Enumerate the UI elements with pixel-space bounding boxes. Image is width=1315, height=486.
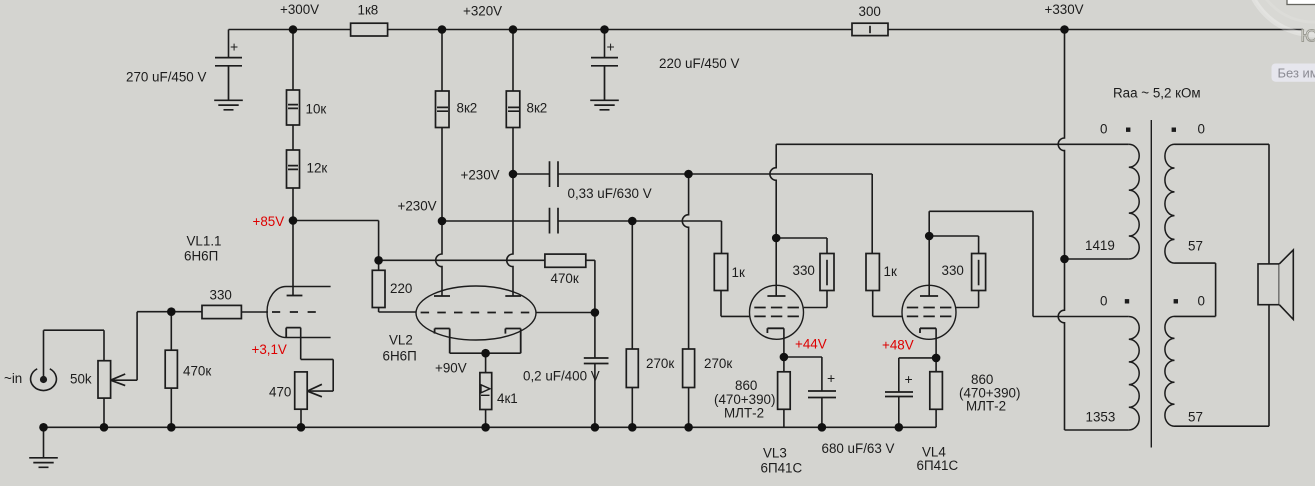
- wire VL3 cathode to node: [783, 328, 785, 357]
- svg-text:1к: 1к: [732, 265, 745, 280]
- pentode VL4: [902, 285, 956, 339]
- svg-text:0: 0: [1198, 294, 1205, 309]
- wire VL4 screen 330 bottom link: [956, 291, 979, 308]
- input jack ~in: [31, 369, 57, 391]
- wire VL3 screen 330 bottom link: [804, 291, 827, 308]
- capacitor 0,2uF/400V: [584, 358, 609, 364]
- svg-text:8к2: 8к2: [527, 101, 548, 116]
- svg-text:МЛТ-2: МЛТ-2: [966, 399, 1006, 414]
- resistor 10k: [287, 90, 300, 125]
- svg-text:+44V: +44V: [795, 337, 827, 352]
- wire speaker vertical: [1268, 144, 1270, 426]
- wire node to 470k left: [379, 259, 545, 261]
- svg-text:270 uF/450 V: 270 uF/450 V: [126, 70, 206, 85]
- svg-text:8к2: 8к2: [457, 101, 478, 116]
- wire +330V column with hops: [1058, 30, 1064, 431]
- wire VL3 screen 330 top link: [776, 238, 827, 254]
- dual triode VL2: [416, 286, 536, 353]
- resistor 300: [852, 23, 888, 35]
- wire 270uF top lead: [228, 30, 230, 58]
- wire 330 to VL1 grid: [241, 311, 268, 313]
- svg-text:+85V: +85V: [253, 214, 285, 229]
- potentiometer 470 VL1 cathode: [295, 372, 322, 409]
- wire 50k wiper to grid node: [111, 312, 202, 381]
- svg-text:330: 330: [942, 263, 964, 278]
- svg-text:+230V: +230V: [461, 168, 500, 183]
- ui overlay top right ghost arc: [1245, 0, 1315, 35]
- svg-text:330: 330: [793, 263, 815, 278]
- resistor 270k no1: [626, 349, 638, 388]
- resistor 1k no1: [714, 254, 727, 291]
- wire grid node to 470k grid leak: [170, 312, 172, 428]
- pentode VL3: [750, 285, 804, 339]
- svg-text:1419: 1419: [1085, 238, 1115, 253]
- wire +330V to primary lower bottom: [1065, 429, 1129, 431]
- wire C2 right to VL3 grid resistor: [558, 221, 722, 254]
- svg-text:1к8: 1к8: [358, 3, 379, 18]
- wire 12k to +85V node: [292, 188, 294, 221]
- wire VL4 node to 680uF cap: [899, 358, 936, 427]
- polarity mark primary lower: [1125, 299, 1129, 303]
- capacitor 680uF no2: [885, 392, 913, 397]
- svg-text:МЛТ-2: МЛТ-2: [724, 406, 764, 421]
- svg-text:57: 57: [1188, 239, 1203, 254]
- svg-text:860: 860: [735, 378, 757, 393]
- svg-text:470к: 470к: [183, 364, 211, 379]
- svg-text:+: +: [607, 39, 615, 55]
- wire 8k2 no1 to +230V node with hop over y260: [436, 128, 442, 297]
- transformer output: [1129, 120, 1175, 448]
- capacitor 0,33uF no1: [550, 161, 559, 187]
- svg-text:0: 0: [1100, 122, 1107, 137]
- svg-text:57: 57: [1188, 410, 1203, 425]
- svg-text:+3,1V: +3,1V: [252, 342, 287, 357]
- svg-text:0,33 uF/630 V: 0,33 uF/630 V: [568, 186, 652, 201]
- wire ground bus: [44, 426, 937, 428]
- capacitor 270uF/450V: [215, 58, 242, 101]
- wire secondary section link: [1175, 263, 1216, 316]
- svg-text:+: +: [827, 370, 835, 386]
- wire secondary bottom to speaker: [1175, 425, 1270, 427]
- svg-text:470: 470: [269, 385, 291, 400]
- ui window fragment: [1287, 0, 1315, 5]
- resistor 4k1 VL2 cathode: [480, 373, 492, 410]
- resistor 330 VL1 grid stopper: [202, 305, 241, 318]
- svg-text:0,2 uF/400 V: 0,2 uF/400 V: [523, 369, 600, 384]
- wire +230V node2 to coupling cap C1: [513, 173, 550, 175]
- wire C1 right to VL4 grid resistor: [558, 174, 872, 254]
- capacitor 680uF no1: [808, 391, 836, 398]
- wire rail to 8k2 no2: [512, 30, 514, 92]
- triode VL1.1: [267, 287, 331, 338]
- svg-text:VL1.1: VL1.1: [187, 234, 222, 249]
- wire secondary top to speaker: [1175, 143, 1270, 145]
- svg-text:+48V: +48V: [882, 338, 914, 353]
- svg-text:Без име: Без име: [1278, 66, 1315, 81]
- svg-text:330: 330: [210, 288, 232, 303]
- resistor 8k2 no1: [436, 91, 450, 128]
- wire 470 bottom to ground: [300, 409, 302, 427]
- wire VL3 node to 680uF cap: [784, 357, 822, 427]
- svg-text:+230V: +230V: [398, 199, 437, 214]
- ground under 270uF: [214, 100, 243, 110]
- svg-text:0: 0: [1198, 122, 1205, 137]
- resistor 220 VL2 grid stopper: [372, 270, 385, 307]
- wire 220 bottom to VL2 grid1: [379, 308, 417, 313]
- winding secondary lower 57: [1165, 316, 1175, 426]
- ui tooltip bez ime: [1272, 64, 1315, 82]
- svg-text:6Н6П: 6Н6П: [184, 249, 218, 264]
- potentiometer 50k: [98, 361, 125, 398]
- resistor 470k VL2: [545, 254, 586, 267]
- speaker: [1258, 250, 1293, 320]
- wire VL3 node to 860 and ground: [783, 357, 785, 427]
- svg-text:~in: ~in: [4, 371, 22, 386]
- svg-text:Raa ~ 5,2 кОм: Raa ~ 5,2 кОм: [1113, 86, 1201, 101]
- wire VL1 cathode to 470 wiper: [301, 328, 334, 392]
- wire VL2 cathode bus to 4k1: [485, 353, 487, 427]
- svg-text:+300V: +300V: [280, 2, 319, 17]
- wire VL3 anode node down to plate: [775, 238, 777, 296]
- wire VL4 cathode to node: [935, 328, 937, 358]
- wire VL2 grid2 to node: [537, 312, 595, 314]
- polarity mark secondary lower: [1174, 299, 1178, 303]
- resistor 470k grid leak VL1: [165, 350, 177, 388]
- wire 220 top lead: [378, 260, 380, 270]
- wire riser 270k no2 with hop over y221: [682, 174, 688, 349]
- svg-text:6П41С: 6П41С: [761, 461, 803, 476]
- ground under 220uF: [590, 100, 619, 110]
- resistor 330 VL3 screen: [820, 254, 834, 291]
- polarity mark secondary upper: [1172, 128, 1176, 132]
- resistor 330 VL4 screen: [972, 254, 986, 291]
- svg-text:0: 0: [1100, 294, 1107, 309]
- wire 1k no1 to VL3 grid: [721, 291, 750, 317]
- capacitor 220uF/450V: [591, 58, 618, 101]
- wire VL3 anode to primary top: [776, 143, 1129, 145]
- wire +230V node1 to coupling cap C2: [442, 220, 550, 222]
- svg-text:50k: 50k: [70, 372, 92, 387]
- ground at input: [29, 458, 58, 468]
- resistor 270k no2: [683, 349, 695, 388]
- svg-text:4к1: 4к1: [497, 391, 518, 406]
- svg-text:+: +: [230, 39, 238, 55]
- wire VL1 anode lead: [292, 221, 294, 296]
- svg-text:+90V: +90V: [435, 361, 467, 376]
- wire 1k no2 to VL4 grid: [873, 291, 902, 317]
- wire riser 270k no1: [631, 221, 633, 349]
- svg-text:6Н6П: 6Н6П: [383, 349, 417, 364]
- wire rail to 8k2 no1: [441, 30, 443, 92]
- wire 270k bottoms to ground: [632, 388, 688, 428]
- svg-text:+320V: +320V: [463, 4, 502, 19]
- wire +330V to primary mid: [1065, 258, 1129, 260]
- svg-text:270к: 270к: [704, 356, 732, 371]
- svg-text:680 uF/63 V: 680 uF/63 V: [822, 441, 895, 456]
- wire node to 0,2uF to ground: [594, 313, 596, 428]
- wire input jack to ground symbol: [43, 427, 45, 458]
- svg-text:1к: 1к: [884, 264, 897, 279]
- resistor 1k8: [351, 23, 388, 36]
- resistor 12k: [287, 150, 300, 188]
- svg-text:6П41С: 6П41С: [917, 458, 959, 473]
- wire +85V node to VL2 grid network: [293, 221, 379, 261]
- wire +300V rail to 10k: [292, 30, 294, 91]
- svg-text:1353: 1353: [1086, 410, 1116, 425]
- svg-text:+: +: [905, 371, 913, 387]
- svg-text:220: 220: [390, 281, 412, 296]
- svg-text:Ю: Ю: [1301, 26, 1315, 46]
- svg-text:VL3: VL3: [763, 446, 787, 461]
- svg-text:10к: 10к: [306, 102, 327, 117]
- capacitor 0,33uF no2: [550, 208, 559, 234]
- svg-text:220 uF/450 V: 220 uF/450 V: [659, 56, 739, 71]
- wire 10k to 12k: [292, 125, 294, 150]
- wire input jack to 50k: [44, 330, 105, 379]
- resistor 860 VL3 cathode: [778, 372, 791, 410]
- resistor 1k no2: [866, 254, 879, 291]
- wire 50k bottom to ground: [103, 398, 105, 427]
- wire VL4 anode to primary bottom: [929, 211, 1129, 316]
- wire 220uF top lead: [604, 30, 606, 58]
- wire VL4 node to 860 and ground: [935, 358, 937, 427]
- polarity mark primary upper: [1126, 128, 1130, 132]
- wire +300V/+320V/+330V top supply rail: [229, 29, 1304, 31]
- wire VL4 screen 330 top link: [929, 236, 978, 254]
- transformer core: [1150, 120, 1152, 448]
- winding secondary upper 57: [1165, 144, 1175, 263]
- wire 470k right to grid2 node: [586, 260, 595, 312]
- resistor 8k2 no2: [506, 91, 520, 128]
- svg-text:470к: 470к: [551, 271, 579, 286]
- svg-text:300: 300: [859, 4, 881, 19]
- svg-text:270к: 270к: [646, 356, 674, 371]
- winding primary lower 1353: [1129, 317, 1139, 431]
- wire VL3 anode riser with hop over y174: [770, 144, 776, 238]
- resistor 860 VL4 cathode: [930, 372, 943, 410]
- svg-text:12к: 12к: [307, 161, 328, 176]
- svg-text:+330V: +330V: [1045, 2, 1084, 17]
- svg-text:VL2: VL2: [389, 333, 413, 348]
- wire VL2 cathode bus: [450, 352, 521, 354]
- wire 8k2 no2 down to VL2 plate2 with hop: [507, 128, 513, 297]
- winding primary upper 1419: [1129, 144, 1139, 259]
